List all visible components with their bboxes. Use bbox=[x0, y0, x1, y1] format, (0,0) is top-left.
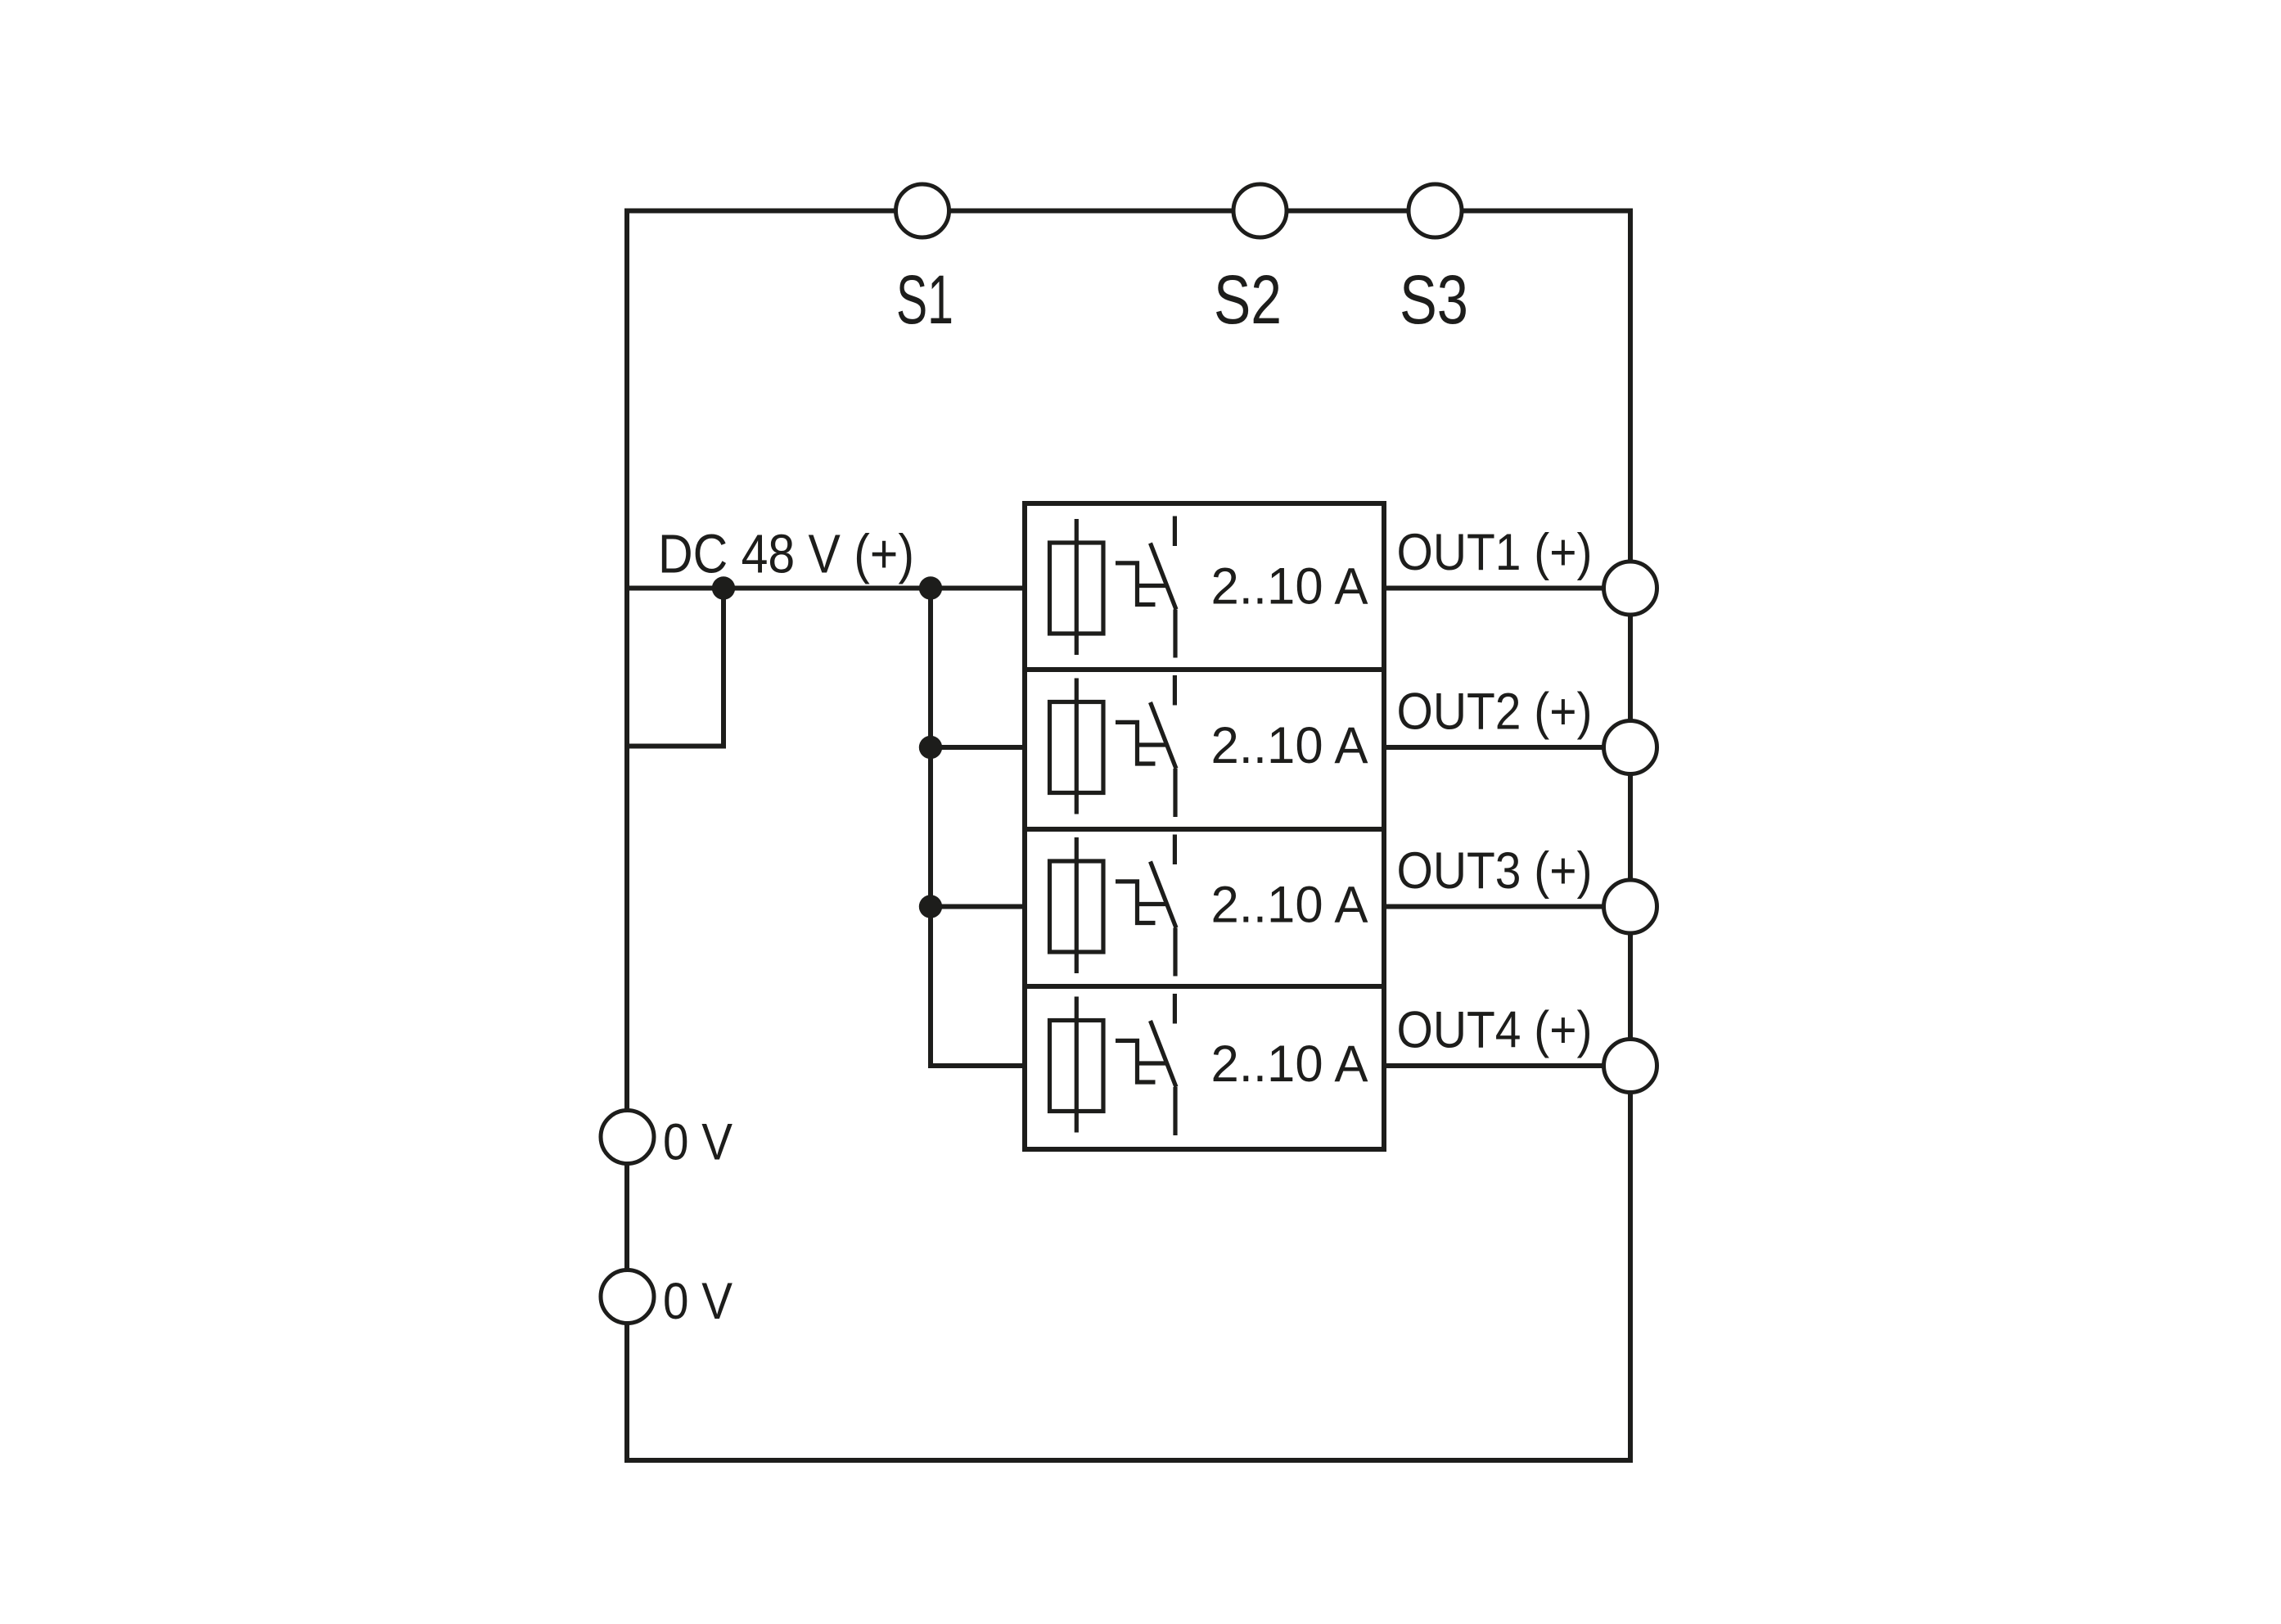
fuse F4 body bbox=[1050, 1021, 1104, 1112]
wire OUT4 bbox=[1384, 1063, 1630, 1068]
svg-text:0 V: 0 V bbox=[663, 1273, 733, 1330]
breaker Q3 contact dash bbox=[1173, 835, 1177, 865]
terminal S2 bbox=[1233, 184, 1287, 237]
junction node B on DC row bbox=[919, 576, 942, 599]
terminal OUT4 bbox=[1604, 1040, 1657, 1093]
breaker Q1 thermal release hook bbox=[1116, 563, 1165, 605]
svg-text:2..10 A: 2..10 A bbox=[1211, 1035, 1368, 1093]
breaker Q1 lower lead bbox=[1173, 610, 1177, 658]
fuse F1 link line bbox=[1075, 519, 1079, 655]
svg-text:S3: S3 bbox=[1400, 261, 1468, 338]
junction channel 3 feed bbox=[919, 895, 942, 918]
breaker Q3 lower lead bbox=[1173, 928, 1177, 977]
svg-text:2..10 A: 2..10 A bbox=[1211, 717, 1368, 774]
terminal OUT3 bbox=[1604, 880, 1657, 933]
fuse F2 body bbox=[1050, 702, 1104, 793]
junction channel 2 feed bbox=[919, 736, 942, 759]
svg-text:2..10 A: 2..10 A bbox=[1211, 558, 1368, 616]
fuse F2 link line bbox=[1075, 679, 1079, 814]
fuse F1 body bbox=[1050, 543, 1104, 634]
wire top bus S1-S3 bbox=[624, 209, 1633, 214]
module box U1 outline bbox=[1025, 503, 1384, 1149]
wire right output bus bbox=[1628, 211, 1633, 1461]
breaker Q3 thermal release hook bbox=[1116, 882, 1165, 923]
fuse F3 link line bbox=[1075, 837, 1079, 973]
terminal OUT1 bbox=[1604, 562, 1657, 615]
terminal 0V lower bbox=[601, 1270, 654, 1324]
terminal S3 bbox=[1409, 184, 1462, 237]
wire feed vertical distribution bbox=[928, 589, 933, 1067]
wire step left to rail bbox=[627, 744, 726, 749]
svg-text:DC 48 V (+): DC 48 V (+) bbox=[658, 524, 914, 585]
wire OUT2 bbox=[1384, 745, 1630, 750]
svg-text:OUT4 (+): OUT4 (+) bbox=[1397, 1002, 1593, 1059]
wire DC 48 V (+) input row bbox=[627, 586, 1025, 591]
breaker Q4 lower lead bbox=[1173, 1087, 1177, 1135]
wire left supply rail bbox=[624, 211, 629, 1461]
wire channel 4 input stub bbox=[928, 1063, 1025, 1068]
breaker Q2 switch blade bbox=[1151, 702, 1177, 769]
breaker Q1 contact dash bbox=[1173, 517, 1177, 547]
terminal OUT2 bbox=[1604, 721, 1657, 774]
breaker Q2 contact dash bbox=[1173, 675, 1177, 706]
svg-text:OUT2 (+): OUT2 (+) bbox=[1397, 683, 1593, 741]
svg-text:2..10 A: 2..10 A bbox=[1211, 877, 1368, 934]
svg-text:S2: S2 bbox=[1214, 261, 1282, 338]
wire bottom return bbox=[624, 1458, 1633, 1463]
fuse F4 link line bbox=[1075, 997, 1079, 1133]
wire OUT3 bbox=[1384, 904, 1630, 909]
wire OUT1 bbox=[1384, 586, 1630, 591]
breaker Q4 thermal release hook bbox=[1116, 1040, 1165, 1082]
terminal S1 bbox=[896, 184, 949, 237]
fuse F3 body bbox=[1050, 861, 1104, 952]
wire channel 3 input stub bbox=[931, 904, 1025, 909]
svg-text:OUT1 (+): OUT1 (+) bbox=[1397, 524, 1593, 581]
breaker Q3 switch blade bbox=[1151, 862, 1177, 928]
wire channel 2 input stub bbox=[931, 745, 1025, 750]
terminal 0V upper bbox=[601, 1111, 654, 1164]
breaker Q2 lower lead bbox=[1173, 769, 1177, 817]
svg-text:0 V: 0 V bbox=[663, 1114, 733, 1171]
divider channel 3/4 bbox=[1025, 984, 1384, 989]
breaker Q1 switch blade bbox=[1151, 544, 1177, 610]
breaker Q4 contact dash bbox=[1173, 994, 1177, 1024]
divider channel 1/2 bbox=[1025, 667, 1384, 672]
breaker Q4 switch blade bbox=[1151, 1021, 1177, 1087]
divider channel 2/3 bbox=[1025, 827, 1384, 832]
breaker Q2 thermal release hook bbox=[1116, 722, 1165, 764]
junction node A on DC row bbox=[712, 576, 735, 599]
wire step down from node A bbox=[721, 589, 726, 747]
svg-text:OUT3 (+): OUT3 (+) bbox=[1397, 842, 1593, 900]
svg-text:S1: S1 bbox=[896, 261, 953, 338]
